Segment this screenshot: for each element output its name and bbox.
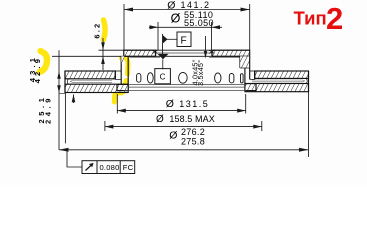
svg-text:Ø: Ø: [171, 12, 181, 26]
svg-text:3.5x45°: 3.5x45°: [196, 60, 205, 86]
svg-text:24.9: 24.9: [44, 95, 53, 124]
svg-text:141.2: 141.2: [181, 0, 211, 10]
svg-text:F: F: [181, 36, 188, 47]
svg-text:131.5: 131.5: [179, 99, 209, 109]
svg-text:Ø: Ø: [166, 98, 174, 110]
svg-text:55.050: 55.050: [184, 18, 214, 28]
svg-text:42.9: 42.9: [33, 56, 42, 83]
svg-text:275.8: 275.8: [181, 137, 205, 147]
svg-text:Ø: Ø: [156, 114, 164, 125]
svg-text:158.5 MAX: 158.5 MAX: [169, 114, 214, 124]
svg-text:2: 2: [326, 1, 343, 36]
svg-text:Ø: Ø: [167, 0, 175, 11]
svg-text:Тип: Тип: [294, 8, 327, 29]
svg-text:C: C: [160, 72, 166, 81]
svg-text:FC: FC: [123, 163, 134, 172]
svg-text:Ø: Ø: [169, 130, 177, 142]
svg-text:276.2: 276.2: [181, 127, 205, 137]
svg-text:0.080: 0.080: [100, 163, 120, 172]
svg-text:6.2: 6.2: [93, 22, 102, 39]
